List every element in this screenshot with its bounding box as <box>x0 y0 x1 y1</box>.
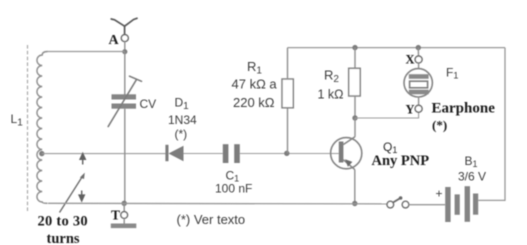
svg-text:X: X <box>406 53 415 67</box>
earphone F1 symbol <box>404 69 432 97</box>
antenna <box>111 18 137 34</box>
wire coil top to antenna junction <box>47 51 125 53</box>
svg-text:T: T <box>111 208 120 223</box>
node rail earphone junction <box>416 45 421 50</box>
wire X to earphone <box>418 63 420 69</box>
wire R1 top to rail <box>287 48 289 79</box>
svg-text:(*): (*) <box>432 118 447 133</box>
battery B1 <box>445 186 478 222</box>
svg-text:100 nF: 100 nF <box>215 182 252 196</box>
transistor Q1 <box>331 137 362 170</box>
svg-text:Y: Y <box>406 103 415 117</box>
svg-text:+: + <box>436 187 443 201</box>
wire diode to C1 <box>184 153 223 155</box>
node emitter rail junction <box>352 201 357 206</box>
wire earphone to Y <box>418 97 420 105</box>
wire switch to battery <box>409 204 445 206</box>
svg-text:220 kΩ: 220 kΩ <box>233 95 275 110</box>
svg-text:B1: B1 <box>465 154 478 169</box>
wire node down to collector <box>354 118 356 137</box>
svg-text:D1: D1 <box>175 96 190 113</box>
svg-text:Any PNP: Any PNP <box>372 153 430 169</box>
wire tap to diode <box>42 153 166 155</box>
svg-text:turns: turns <box>47 231 80 245</box>
wire A to junction <box>124 42 126 52</box>
wire R2 bottom to node <box>354 96 356 118</box>
wire C1 to base <box>240 153 339 155</box>
wire rail junction to terminal T <box>123 203 125 211</box>
turns annotation up arrow <box>79 152 86 165</box>
capacitor C1 <box>223 144 240 163</box>
wire emitter down <box>354 170 356 204</box>
node CV bottom rail junction <box>122 201 127 206</box>
wire CV to bottom rail <box>124 109 126 204</box>
ground <box>111 224 137 229</box>
node rail R2 junction <box>352 45 357 50</box>
wire T to ground <box>123 218 125 223</box>
resistor R1 <box>282 79 293 108</box>
variable capacitor CV arrow <box>108 76 141 126</box>
node antenna junction <box>122 49 127 54</box>
svg-text:CV: CV <box>140 97 157 111</box>
wire R2 top <box>354 48 356 69</box>
svg-text:L1: L1 <box>11 112 24 129</box>
svg-text:F1: F1 <box>446 66 458 81</box>
turns annotation down arrow <box>78 191 85 203</box>
node coil tap <box>39 151 44 156</box>
inductor L1 <box>37 52 48 204</box>
terminal X <box>415 56 422 63</box>
diode D1 <box>165 145 183 161</box>
node R1 bottom junction <box>284 151 289 156</box>
svg-text:(*): (*) <box>175 127 188 141</box>
svg-text:R2: R2 <box>324 68 339 86</box>
switch S1 <box>387 196 409 208</box>
wire node to Y terminal <box>355 112 419 118</box>
wire top rail <box>288 47 506 49</box>
terminal Y <box>415 105 422 112</box>
wire R1 bottom <box>287 108 289 154</box>
svg-text:1N34: 1N34 <box>168 113 197 127</box>
inductor L1 core dashed line <box>27 45 29 213</box>
turns annotation pointer line <box>60 173 85 213</box>
variable capacitor CV plates <box>112 94 137 108</box>
terminal T <box>121 212 128 219</box>
svg-text:Earphone: Earphone <box>432 101 496 117</box>
svg-text:1 kΩ: 1 kΩ <box>318 88 344 102</box>
wire battery to right edge and up <box>478 48 505 201</box>
terminal A <box>121 35 128 42</box>
svg-text:R1: R1 <box>247 59 262 77</box>
wire junction down to CV <box>124 52 126 95</box>
svg-text:(*) Ver texto: (*) Ver texto <box>177 212 246 227</box>
node R2 bottom junction <box>352 115 357 120</box>
wire X from rail <box>417 48 419 56</box>
svg-text:3/6 V: 3/6 V <box>458 170 486 184</box>
svg-text:A: A <box>109 33 120 48</box>
svg-text:47 kΩ a: 47 kΩ a <box>232 77 278 92</box>
resistor R2 <box>349 68 361 96</box>
wire bottom rail left <box>48 202 387 205</box>
svg-text:20 to 30: 20 to 30 <box>38 214 88 230</box>
